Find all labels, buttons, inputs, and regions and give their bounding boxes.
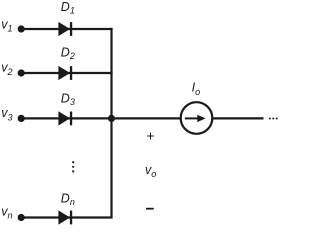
svg-text:v3: v3 [1,106,12,122]
svg-text:v1: v1 [1,17,12,33]
svg-text:+: + [146,128,154,144]
svg-text:D2: D2 [61,45,75,61]
svg-text:v2: v2 [1,61,12,77]
svg-text:D3: D3 [61,91,75,107]
svg-text:vn: vn [1,204,12,220]
svg-text:Dn: Dn [61,192,75,208]
svg-text:vo: vo [145,163,156,179]
svg-text:Io: Io [192,81,201,97]
svg-text:D1: D1 [61,0,75,16]
